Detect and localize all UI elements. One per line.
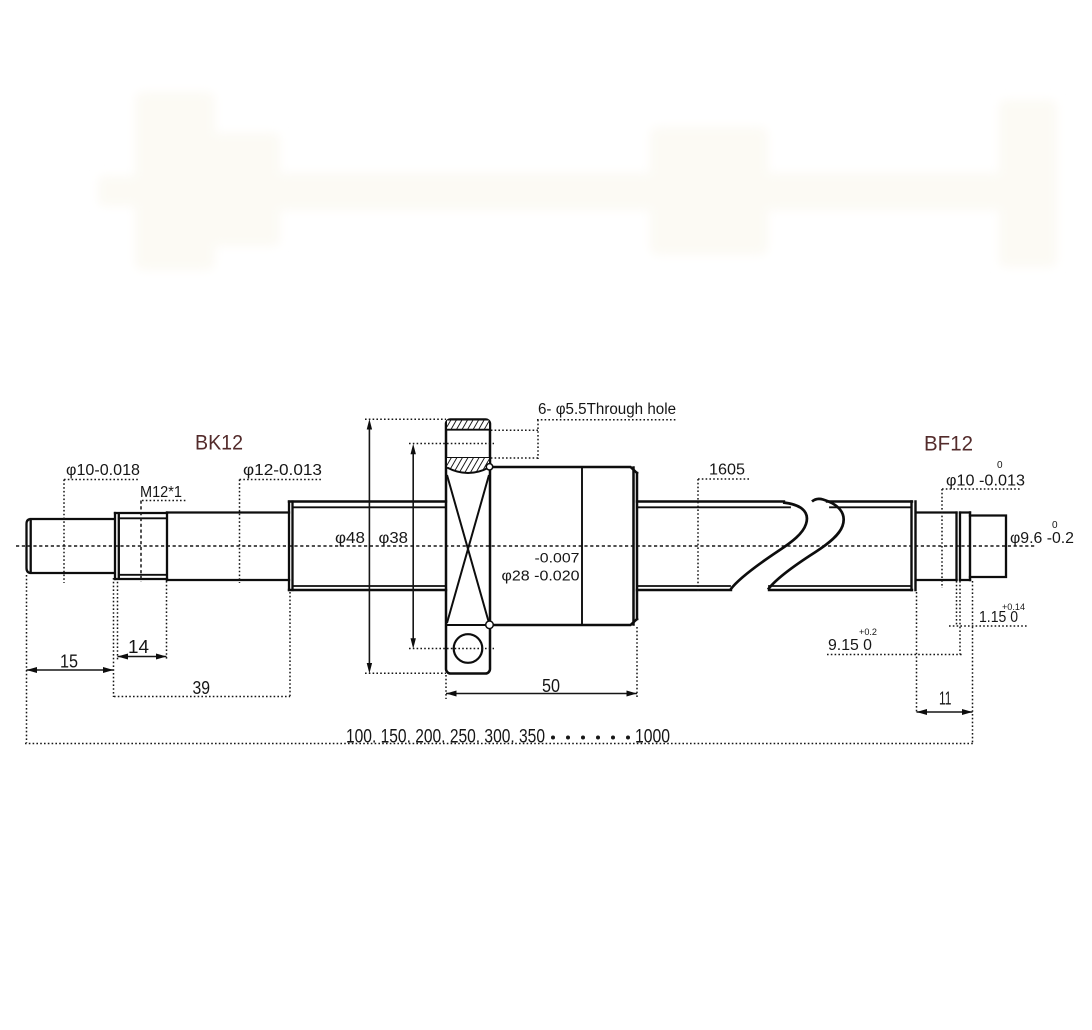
break curve right — [768, 499, 844, 590]
ghost photo nut block — [650, 127, 768, 255]
nut mid line — [581, 467, 583, 625]
flange cross X — [446, 475, 490, 625]
svg-text:φ10-0.018: φ10-0.018 — [66, 462, 140, 479]
svg-text:6- φ5.5Through hole: 6- φ5.5Through hole — [538, 401, 676, 418]
flange hatch band top — [446, 421, 490, 474]
svg-text:φ38: φ38 — [379, 530, 409, 547]
phi9.6 end section — [970, 516, 1006, 578]
screw body right portion after break — [769, 502, 916, 591]
nut body — [490, 467, 637, 625]
flange hole bottom line — [446, 457, 490, 459]
circlip groove — [955, 513, 957, 581]
svg-text:φ12-0.013: φ12-0.013 — [243, 462, 322, 479]
left shaft phi10 section — [27, 502, 293, 591]
thread section M12 — [115, 513, 167, 579]
svg-text:+0.2: +0.2 — [859, 627, 877, 638]
svg-text:φ9.6 -0.2: φ9.6 -0.2 — [1010, 530, 1074, 547]
extension verticals right end — [917, 581, 973, 744]
svg-text:1000: 1000 — [635, 727, 670, 748]
ghost photo right end block — [999, 100, 1057, 267]
svg-text:11: 11 — [939, 688, 952, 709]
svg-text:φ28 -0.020: φ28 -0.020 — [502, 569, 580, 585]
break curve left — [731, 503, 807, 590]
svg-text:+0.14: +0.14 — [1002, 602, 1025, 613]
screw start shoulder — [289, 502, 293, 591]
ghost photo shaft band — [213, 173, 1015, 210]
svg-text:14: 14 — [128, 636, 149, 657]
svg-text:1605: 1605 — [709, 462, 745, 479]
svg-text:9.15 0: 9.15 0 — [828, 637, 872, 654]
svg-text:100. 150. 200. 250. 300. 350: 100. 150. 200. 250. 300. 350 — [346, 727, 545, 748]
shoulder phi10/M12 — [114, 513, 116, 579]
phi12 section — [167, 513, 289, 581]
left extension verticals — [27, 575, 291, 743]
screw end shoulder — [912, 502, 916, 591]
svg-text:BF12: BF12 — [924, 433, 973, 456]
flange hatch band lower with curved bottom — [447, 458, 489, 473]
svg-text:0: 0 — [997, 460, 1003, 471]
relief notch top — [486, 464, 492, 470]
svg-text:BK12: BK12 — [195, 432, 243, 455]
svg-text:φ10 -0.013: φ10 -0.013 — [946, 473, 1025, 490]
svg-text:φ48: φ48 — [335, 530, 365, 547]
centerline — [16, 545, 1036, 547]
screw body left portion — [289, 502, 446, 591]
svg-text:-0.007: -0.007 — [535, 550, 580, 566]
svg-text:M12*1: M12*1 — [140, 484, 182, 501]
relief notch bottom — [486, 621, 494, 629]
screw body right of nut (to break) — [637, 502, 790, 591]
ghost photo left end — [98, 92, 1057, 270]
nut flange outline — [446, 420, 490, 674]
svg-text:39: 39 — [193, 677, 211, 698]
BF12 end: phi10 section — [916, 513, 1006, 581]
svg-text:0: 0 — [1052, 520, 1058, 531]
svg-text:15: 15 — [60, 651, 78, 672]
flange bolt hole circle — [454, 634, 483, 663]
